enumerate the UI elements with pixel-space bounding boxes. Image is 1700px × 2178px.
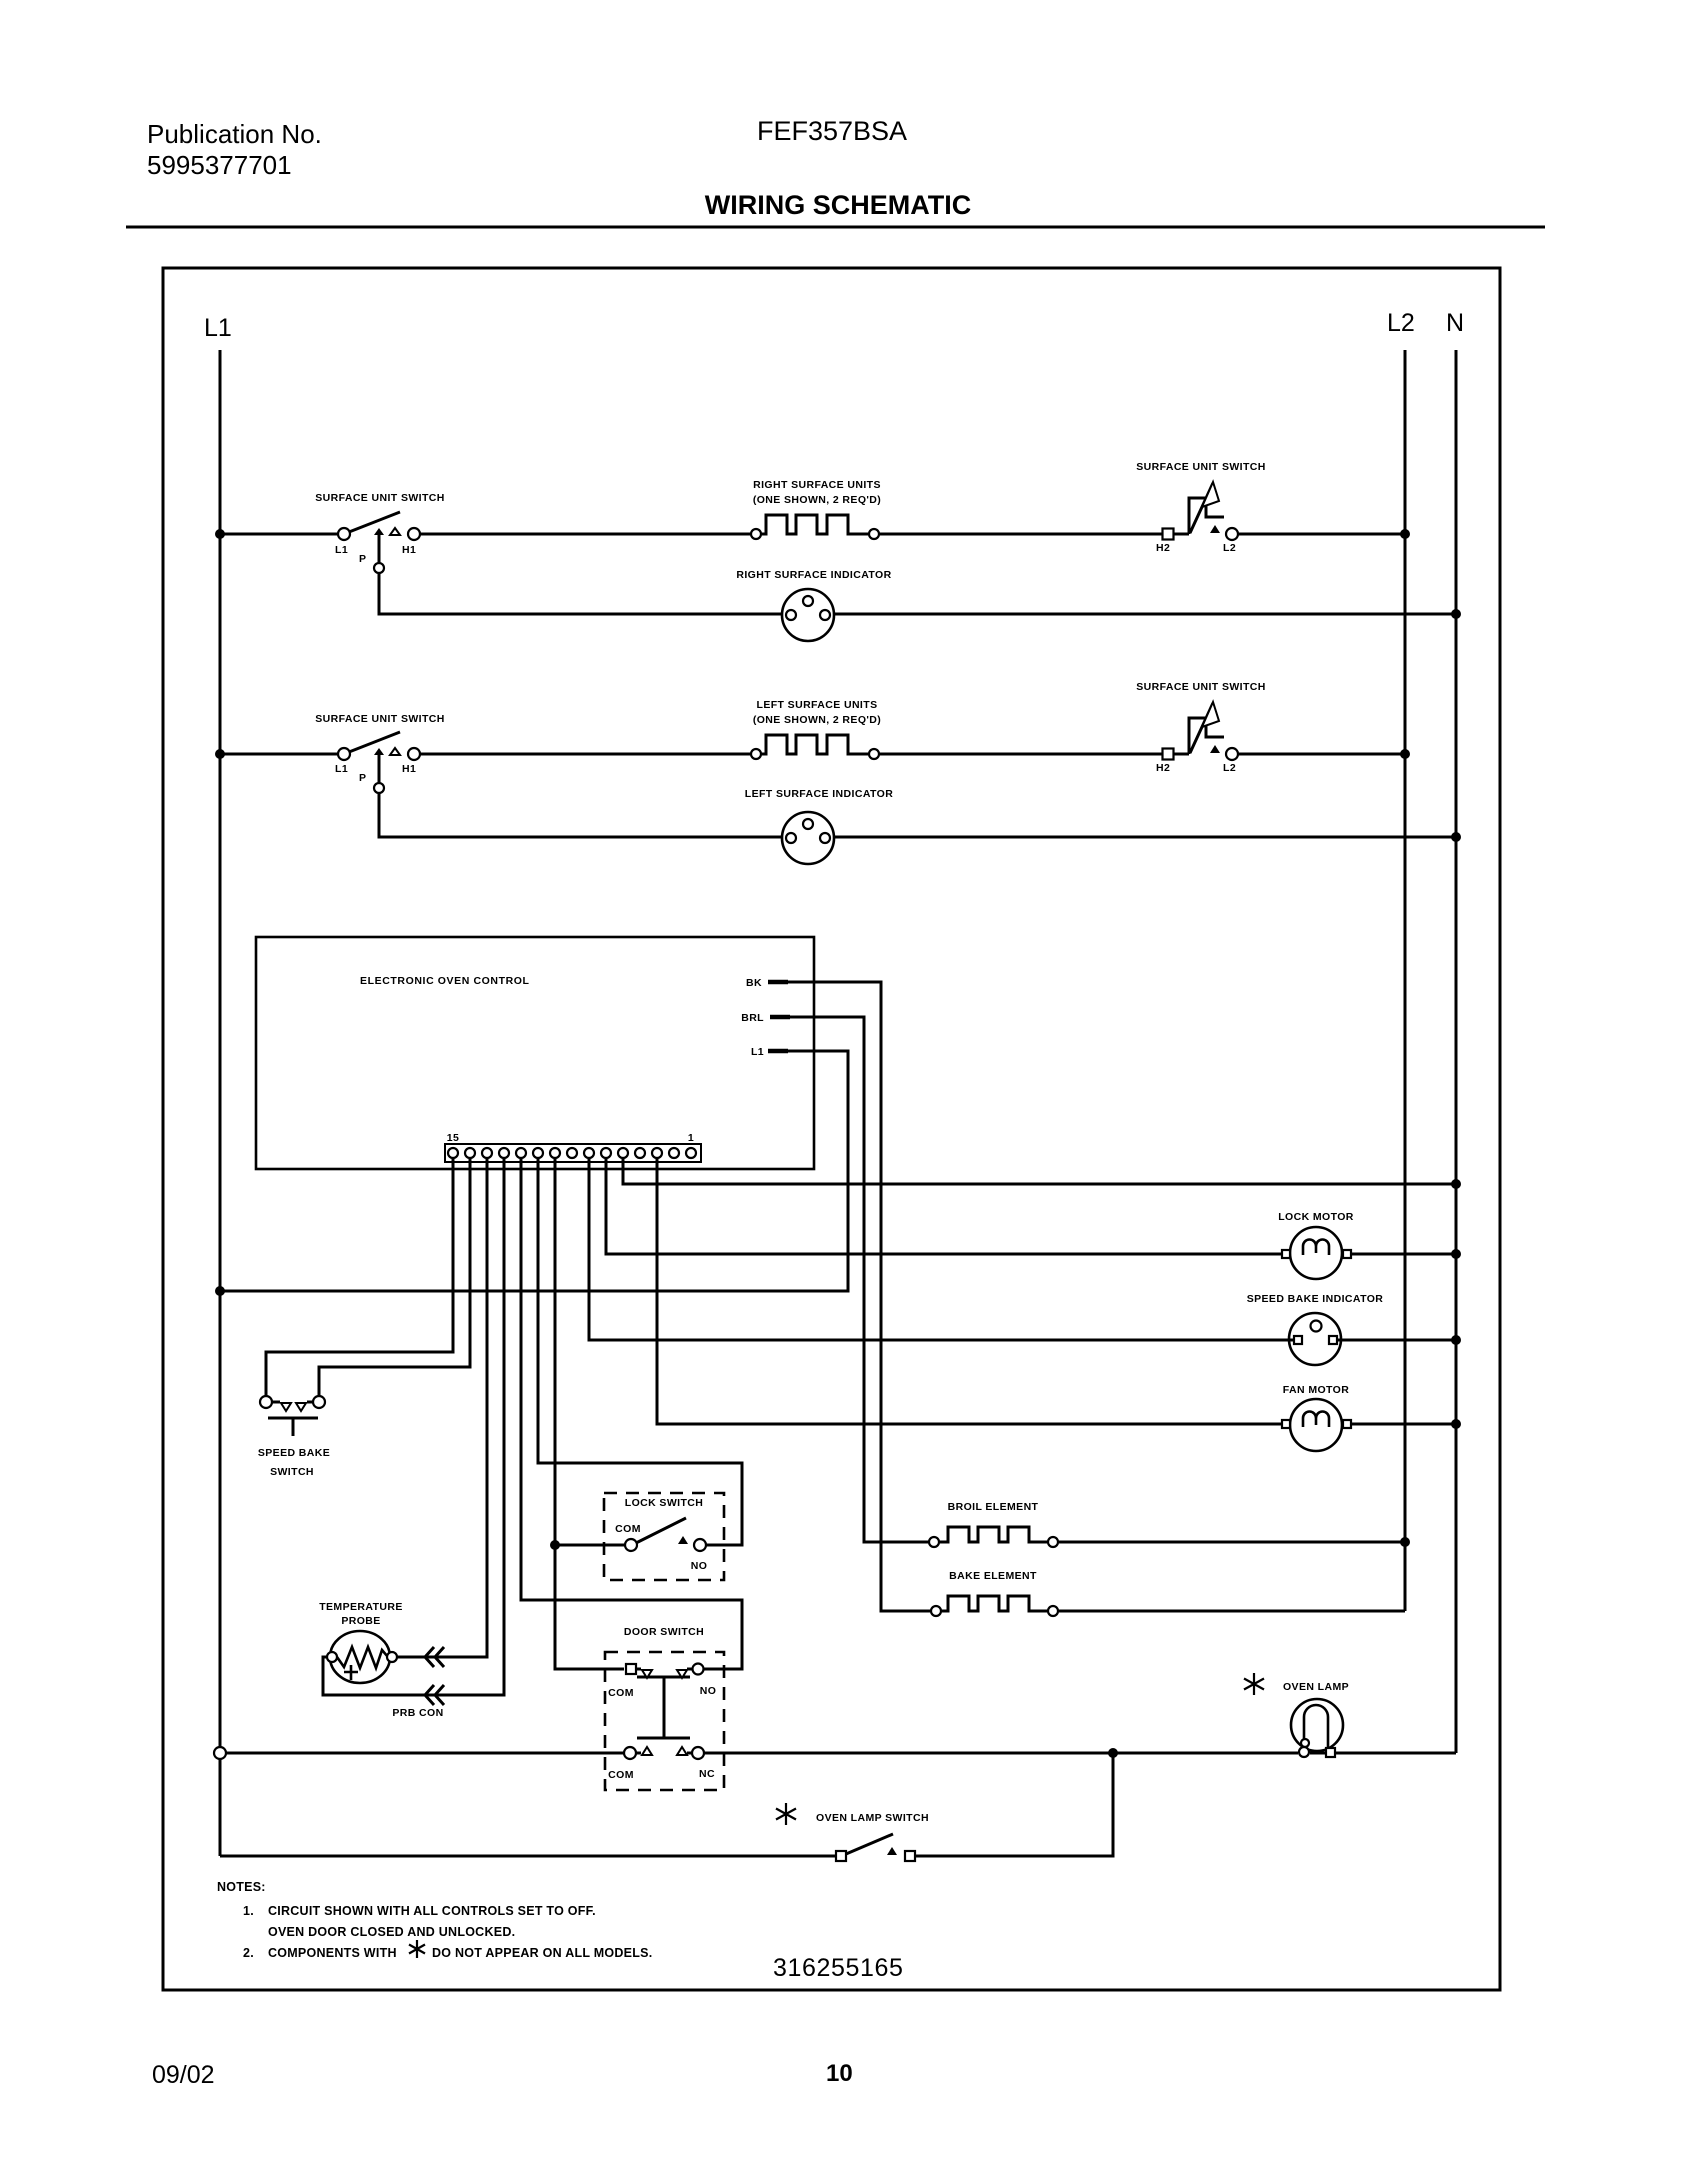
svg-text:LOCK SWITCH: LOCK SWITCH <box>625 1497 703 1509</box>
svg-text:H1: H1 <box>402 544 416 556</box>
svg-text:BAKE ELEMENT: BAKE ELEMENT <box>949 1570 1037 1582</box>
svg-text:TEMPERATURE: TEMPERATURE <box>319 1601 403 1613</box>
svg-text:LEFT SURFACE INDICATOR: LEFT SURFACE INDICATOR <box>745 788 893 800</box>
svg-text:OVEN DOOR CLOSED AND UNLOCKED.: OVEN DOOR CLOSED AND UNLOCKED. <box>268 1925 515 1939</box>
svg-text:SPEED BAKE INDICATOR: SPEED BAKE INDICATOR <box>1247 1293 1384 1305</box>
svg-text:5995377701: 5995377701 <box>147 150 292 180</box>
svg-text:L2: L2 <box>1387 309 1415 337</box>
svg-text:NC: NC <box>699 1768 715 1780</box>
svg-text:NOTES:: NOTES: <box>217 1880 266 1894</box>
svg-text:COM: COM <box>608 1769 634 1781</box>
svg-text:COMPONENTS WITH: COMPONENTS WITH <box>268 1946 397 1960</box>
svg-text:CIRCUIT SHOWN WITH ALL CONTROL: CIRCUIT SHOWN WITH ALL CONTROLS SET TO O… <box>268 1904 596 1918</box>
svg-text:NO: NO <box>691 1560 708 1572</box>
svg-text:2.: 2. <box>243 1946 254 1960</box>
svg-text:COM: COM <box>608 1687 634 1699</box>
svg-text:H1: H1 <box>402 763 416 775</box>
svg-text:OVEN LAMP SWITCH: OVEN LAMP SWITCH <box>816 1812 929 1824</box>
svg-text:RIGHT SURFACE INDICATOR: RIGHT SURFACE INDICATOR <box>736 569 891 581</box>
svg-text:BROIL ELEMENT: BROIL ELEMENT <box>948 1501 1039 1513</box>
svg-text:SURFACE UNIT SWITCH: SURFACE UNIT SWITCH <box>315 492 445 504</box>
svg-text:10: 10 <box>826 2060 853 2087</box>
svg-text:PRB CON: PRB CON <box>392 1707 443 1719</box>
svg-text:ELECTRONIC OVEN CONTROL: ELECTRONIC OVEN CONTROL <box>360 975 530 987</box>
svg-text:OVEN LAMP: OVEN LAMP <box>1283 1681 1349 1693</box>
svg-text:NO: NO <box>700 1685 717 1697</box>
svg-text:1: 1 <box>688 1132 694 1144</box>
svg-text:L1: L1 <box>204 314 232 342</box>
svg-text:(ONE SHOWN, 2 REQ'D): (ONE SHOWN, 2 REQ'D) <box>753 714 881 726</box>
svg-text:L2: L2 <box>1223 762 1236 774</box>
svg-text:(ONE SHOWN, 2 REQ'D): (ONE SHOWN, 2 REQ'D) <box>753 494 881 506</box>
svg-text:H2: H2 <box>1156 762 1170 774</box>
svg-text:Publication No.: Publication No. <box>147 119 322 149</box>
svg-text:WIRING SCHEMATIC: WIRING SCHEMATIC <box>705 190 971 220</box>
svg-text:LEFT SURFACE UNITS: LEFT SURFACE UNITS <box>757 699 878 711</box>
svg-text:L1: L1 <box>335 763 348 775</box>
svg-text:FEF357BSA: FEF357BSA <box>757 116 907 146</box>
svg-text:SPEED BAKE: SPEED BAKE <box>258 1447 330 1459</box>
svg-text:L1: L1 <box>751 1046 764 1058</box>
svg-text:L1: L1 <box>335 544 348 556</box>
svg-text:SURFACE UNIT SWITCH: SURFACE UNIT SWITCH <box>1136 461 1266 473</box>
svg-text:SURFACE UNIT SWITCH: SURFACE UNIT SWITCH <box>315 713 445 725</box>
svg-text:316255165: 316255165 <box>773 1954 904 1982</box>
svg-text:P: P <box>359 772 366 784</box>
svg-text:SURFACE UNIT SWITCH: SURFACE UNIT SWITCH <box>1136 681 1266 693</box>
svg-text:BK: BK <box>746 977 762 989</box>
svg-text:H2: H2 <box>1156 542 1170 554</box>
svg-text:N: N <box>1446 309 1464 337</box>
svg-text:DOOR SWITCH: DOOR SWITCH <box>624 1626 704 1638</box>
svg-text:L2: L2 <box>1223 542 1236 554</box>
svg-text:FAN MOTOR: FAN MOTOR <box>1283 1384 1349 1396</box>
svg-text:COM: COM <box>615 1523 641 1535</box>
svg-text:15: 15 <box>447 1132 459 1144</box>
svg-text:LOCK MOTOR: LOCK MOTOR <box>1278 1211 1354 1223</box>
svg-text:BRL: BRL <box>741 1012 764 1024</box>
svg-text:DO NOT APPEAR ON ALL MODELS.: DO NOT APPEAR ON ALL MODELS. <box>432 1946 652 1960</box>
svg-text:SWITCH: SWITCH <box>270 1466 314 1478</box>
svg-text:09/02: 09/02 <box>152 2061 215 2089</box>
svg-text:P: P <box>359 553 366 565</box>
svg-text:RIGHT SURFACE UNITS: RIGHT SURFACE UNITS <box>753 479 881 491</box>
svg-text:1.: 1. <box>243 1904 254 1918</box>
svg-text:PROBE: PROBE <box>341 1615 380 1627</box>
